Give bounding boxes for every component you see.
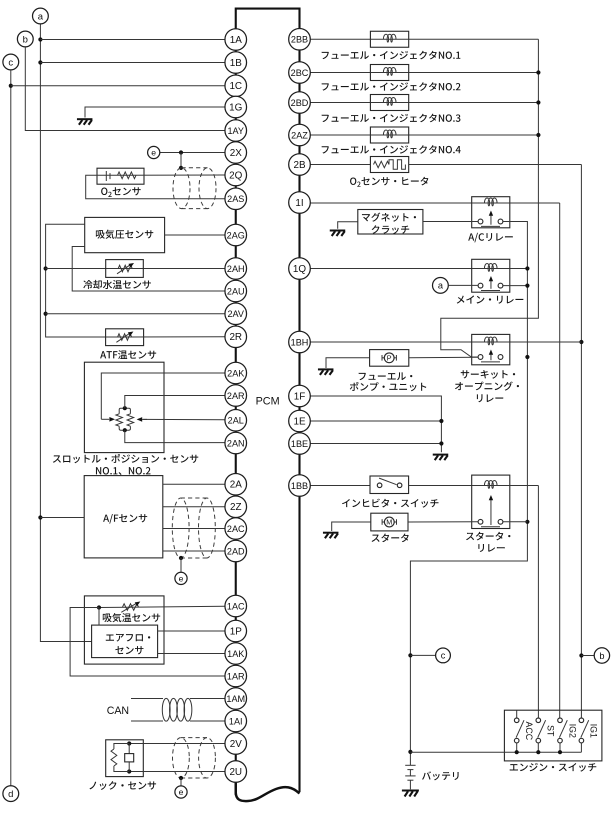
pin 2BD xyxy=(289,92,311,114)
svg-text:2U: 2U xyxy=(229,767,242,778)
label injector NO.2 xyxy=(322,83,329,90)
label throttle position sensor xyxy=(53,455,61,462)
svg-text:1C: 1C xyxy=(229,81,242,92)
ground (pump) xyxy=(318,369,334,375)
label starter xyxy=(372,535,380,542)
pin 1AY xyxy=(225,120,247,142)
pin 2AC xyxy=(225,518,247,540)
ground (battery) xyxy=(402,791,419,797)
connector e (A/F) xyxy=(175,572,187,584)
pin 2AZ xyxy=(289,124,311,146)
pin 1Q xyxy=(289,258,311,280)
pin 2AH xyxy=(225,258,247,280)
pin 1AK xyxy=(225,643,247,665)
label airflow sensor xyxy=(106,634,114,640)
wire 1BB xyxy=(310,485,370,487)
intake pressure sensor box xyxy=(85,217,165,252)
wire 1C xyxy=(11,85,225,87)
injector NO.2 box xyxy=(370,65,408,81)
label circuit opening relay xyxy=(461,370,469,378)
wire starter switch to rail xyxy=(503,521,528,523)
wire shield to e xyxy=(180,558,182,572)
svg-text:1BB: 1BB xyxy=(291,481,308,491)
knock piezo element xyxy=(128,744,130,754)
svg-text:ACC: ACC xyxy=(524,722,534,741)
wire 1B xyxy=(40,62,225,64)
svg-text:1F: 1F xyxy=(294,391,306,402)
wire a to A/F xyxy=(40,517,84,519)
node branch/2AV xyxy=(44,312,48,316)
label battery xyxy=(422,771,431,779)
blade ACC xyxy=(516,720,524,737)
pin 2V xyxy=(225,733,247,755)
svg-text:2Z: 2Z xyxy=(230,502,242,513)
wire: net a vertical xyxy=(40,24,91,642)
svg-text:2AC: 2AC xyxy=(227,524,245,534)
svg-text:1AM: 1AM xyxy=(226,694,245,704)
label main relay xyxy=(457,296,465,304)
label magnet clutch xyxy=(362,214,370,221)
wire clutch to ground xyxy=(338,222,358,229)
wire 1BH through CO coil xyxy=(310,341,581,343)
pin 1E xyxy=(289,410,311,432)
svg-text:2V: 2V xyxy=(230,739,242,750)
A/F sensor box xyxy=(84,476,163,558)
node: a to 1B xyxy=(38,60,42,64)
node: a to A/F sensor xyxy=(38,515,42,519)
label A/F sensor xyxy=(103,515,109,522)
svg-text:2AG: 2AG xyxy=(227,230,245,240)
wire a to main switch xyxy=(448,284,478,286)
resistor top bracket xyxy=(119,408,130,414)
wire 1P xyxy=(158,630,225,632)
node: e wire to shield xyxy=(179,150,183,154)
pin 2A xyxy=(225,473,247,495)
wire 1I xyxy=(310,202,471,204)
svg-text:1AC: 1AC xyxy=(227,601,245,611)
wire A/C coil to IG2 line xyxy=(510,202,560,204)
wire 1AC xyxy=(99,606,225,607)
svg-text:1I: 1I xyxy=(295,198,303,209)
connector d (bottom) xyxy=(3,786,19,802)
knock resistor branch xyxy=(114,744,129,750)
node rail/engine switch xyxy=(408,750,412,754)
pin 2AS xyxy=(225,188,247,210)
wire 2AH xyxy=(46,268,225,270)
ground (starter) xyxy=(323,533,339,539)
pin 1F xyxy=(289,385,311,407)
starter relay xyxy=(472,475,510,528)
pin 1AM xyxy=(225,688,247,710)
pin 2U xyxy=(225,761,247,783)
connector b (right) xyxy=(594,648,609,663)
label coolant temp sensor xyxy=(83,280,92,289)
label knock sensor xyxy=(89,782,96,790)
injector NO.4 box xyxy=(370,127,408,143)
svg-text:2AS: 2AS xyxy=(227,194,244,204)
svg-text:2R: 2R xyxy=(229,332,242,343)
bus bottom break wave xyxy=(236,782,300,801)
svg-text:d: d xyxy=(8,789,13,800)
ground (clutch) xyxy=(330,231,346,237)
wire 2Z xyxy=(163,506,225,508)
engine switch pole ST xyxy=(536,718,541,723)
svg-text:2B: 2B xyxy=(293,160,305,171)
svg-text:2AU: 2AU xyxy=(227,286,245,296)
wire airflow stub xyxy=(98,608,100,626)
pin 2AK xyxy=(225,362,247,384)
wire pump to ground xyxy=(326,358,370,368)
svg-text:2AD: 2AD xyxy=(227,546,245,556)
intake air temp sensor box xyxy=(84,596,164,664)
wire starter coil to ST line xyxy=(510,485,539,487)
knock sensor box xyxy=(106,740,144,777)
connector c (top) xyxy=(3,54,19,70)
ground (1G) xyxy=(77,119,93,125)
circuit opening relay xyxy=(472,334,510,364)
pin 2AG xyxy=(225,224,247,246)
pin 1BH xyxy=(289,331,311,353)
pin 1I xyxy=(289,192,311,214)
svg-text:2AK: 2AK xyxy=(227,368,244,378)
pin 1BB xyxy=(289,475,311,497)
pin 2Z xyxy=(225,496,247,518)
injector NO.1 box xyxy=(370,31,408,47)
shield (A/F) xyxy=(172,498,215,558)
pin 2R xyxy=(225,326,247,348)
connector c (right) xyxy=(436,648,451,663)
connector b (top) xyxy=(17,31,33,47)
node 1AC/1AR/airflow xyxy=(97,605,101,609)
pin 2BC xyxy=(289,62,311,84)
O2 sensor battery symbol xyxy=(105,171,107,181)
wire main coil to rail xyxy=(510,268,528,270)
throttle resistors xyxy=(116,414,123,426)
injector collector line xyxy=(441,39,539,357)
svg-text:2AZ: 2AZ xyxy=(291,130,308,140)
IG2 feed line xyxy=(559,203,561,718)
injector NO.3 wire xyxy=(310,102,370,104)
label injector NO.1 xyxy=(322,52,329,59)
O2 sensor resistor xyxy=(118,172,137,179)
pin 2AL xyxy=(225,409,247,431)
pin 1P xyxy=(225,620,247,642)
main relay xyxy=(472,259,510,292)
battery rail from A/C switch xyxy=(410,222,527,766)
svg-text:1Q: 1Q xyxy=(293,264,306,275)
label injector NO.3 xyxy=(322,115,329,122)
wire 1AR loop xyxy=(70,608,225,677)
engine switch pole IG2 xyxy=(558,718,563,723)
svg-text:e: e xyxy=(151,148,156,158)
pin 1AI xyxy=(225,710,247,732)
svg-text:IG1: IG1 xyxy=(589,724,599,738)
wire 2X to e xyxy=(160,152,225,154)
wire heater to IG1 line xyxy=(409,164,582,166)
engine switch pole IG1 xyxy=(579,718,584,723)
svg-text:2BD: 2BD xyxy=(291,98,309,108)
battery symbol xyxy=(405,764,415,766)
node rail/c xyxy=(408,653,412,657)
wire: net b to 1AY xyxy=(25,47,225,131)
IG1 feed line xyxy=(580,165,582,718)
pin 1A xyxy=(225,29,247,51)
engine switch common bus xyxy=(410,751,581,753)
svg-text:1AK: 1AK xyxy=(227,649,244,659)
ATF thermistor xyxy=(118,334,132,340)
A/C relay xyxy=(472,197,510,228)
pin 1BE xyxy=(289,433,311,455)
label starter relay xyxy=(466,533,474,540)
engine switch box xyxy=(504,710,602,761)
wire 2Q xyxy=(97,174,225,176)
ATF temp sensor box xyxy=(106,329,144,346)
wire 2U xyxy=(129,771,225,773)
connector e (O2 shield) xyxy=(148,146,160,158)
wire to connector b xyxy=(581,655,594,657)
label engine switch xyxy=(510,764,518,770)
injector NO.1 wire xyxy=(310,38,370,40)
wire 2AD xyxy=(163,550,225,552)
wire 2AC xyxy=(163,528,225,530)
coolant temp thermistor xyxy=(118,265,132,271)
fuel pump box xyxy=(370,350,409,367)
O2 heater box xyxy=(370,157,408,173)
wire O2 loop to 2AS xyxy=(86,175,225,198)
pin 1C xyxy=(225,75,247,97)
label A/C relay xyxy=(468,233,474,240)
svg-text:1A: 1A xyxy=(230,35,242,46)
svg-text:a: a xyxy=(38,11,44,22)
svg-text:2AR: 2AR xyxy=(227,391,245,401)
svg-text:e: e xyxy=(179,787,184,797)
svg-text:M: M xyxy=(386,518,392,527)
wire 2AG xyxy=(165,234,225,236)
blade IG2 xyxy=(559,720,567,737)
svg-text:1AI: 1AI xyxy=(229,716,243,726)
wire shield drain xyxy=(180,153,182,168)
pin 1G xyxy=(225,96,247,118)
ground (1F/1E/1BE) xyxy=(433,455,449,461)
pin 2AR xyxy=(225,385,247,407)
wire to connector c xyxy=(410,654,435,656)
svg-text:a: a xyxy=(438,281,444,291)
svg-text:2AV: 2AV xyxy=(227,309,244,319)
pin 1AC xyxy=(225,595,247,617)
svg-text:2BB: 2BB xyxy=(291,35,308,45)
wire starter to ground xyxy=(332,522,371,531)
knock internal nodes xyxy=(127,741,131,745)
svg-text:2A: 2A xyxy=(230,480,242,491)
wire: press sensor to 2AU xyxy=(72,247,225,292)
wire 1A xyxy=(40,39,225,41)
node IG1/b xyxy=(579,653,583,657)
pin 2AU xyxy=(225,280,247,302)
svg-text:1G: 1G xyxy=(229,102,242,113)
blade ST xyxy=(538,720,546,737)
connector e (knock) xyxy=(175,786,187,798)
engine switch pole ACC xyxy=(516,710,518,718)
injector NO.4 wire xyxy=(310,134,370,136)
fuel pump symbol xyxy=(381,355,383,361)
svg-text:1AR: 1AR xyxy=(227,671,245,681)
pin 2B xyxy=(289,154,311,176)
svg-text:2AN: 2AN xyxy=(227,438,245,448)
svg-text:2BC: 2BC xyxy=(291,68,309,78)
node: a to 1A xyxy=(38,37,42,41)
svg-text:c: c xyxy=(441,651,446,661)
wire pump to CO switch xyxy=(409,356,478,359)
wire 1BE xyxy=(310,443,441,445)
intake air thermistor xyxy=(123,604,139,610)
wire clutch to A/C switch xyxy=(423,221,478,223)
coolant temp sensor box xyxy=(106,260,144,278)
pin 2X xyxy=(225,142,247,164)
connector a (main relay) xyxy=(433,278,449,294)
magnet clutch box xyxy=(358,210,423,235)
wire 2A xyxy=(163,483,225,485)
label O2 sensor heater xyxy=(350,177,356,184)
node shield drain (knock) xyxy=(179,776,183,780)
wire: press sensor left branch xyxy=(46,224,106,337)
svg-text:1BE: 1BE xyxy=(291,439,308,449)
pin 1AR xyxy=(225,665,247,687)
svg-text:e: e xyxy=(179,573,184,583)
svg-text:2AL: 2AL xyxy=(228,416,244,426)
wire inhibitor to starter relay xyxy=(409,485,472,487)
label intake pressure sensor xyxy=(96,230,105,239)
svg-text:1E: 1E xyxy=(293,416,305,427)
wire 2AL wiper2 xyxy=(143,418,225,420)
pin 2AV xyxy=(225,303,247,325)
resistor bottom bracket xyxy=(119,426,130,430)
wire 2AR xyxy=(125,396,225,409)
injector NO.3 box xyxy=(370,95,408,111)
node rail/starter switch xyxy=(525,520,529,524)
node rail/CO switch xyxy=(525,355,529,359)
svg-text:1P: 1P xyxy=(230,626,242,637)
node shield drain xyxy=(179,556,183,560)
wire 1F xyxy=(310,396,441,452)
shield (O2) xyxy=(173,168,216,209)
label ATF temp sensor xyxy=(100,351,106,358)
svg-text:PCM: PCM xyxy=(256,395,280,407)
wire starter to relay switch xyxy=(408,521,478,523)
wire 2AV xyxy=(46,313,225,315)
throttle position sensor box xyxy=(84,362,164,452)
svg-text:c: c xyxy=(8,57,13,68)
wire 2AK wiper1 xyxy=(101,373,225,419)
node branch/2AH xyxy=(44,266,48,270)
wire: net c/d vertical xyxy=(10,70,12,786)
label O2 sensor xyxy=(101,188,107,195)
svg-text:1BH: 1BH xyxy=(291,337,309,347)
starter motor box xyxy=(371,513,408,531)
inhibitor switch box xyxy=(370,476,409,494)
svg-text:2X: 2X xyxy=(230,148,242,159)
label fuel pump unit xyxy=(359,373,366,380)
svg-text:P: P xyxy=(387,353,392,362)
label intake air temp sensor xyxy=(103,614,112,623)
svg-text:2AH: 2AH xyxy=(227,264,245,274)
injector NO.2 wire xyxy=(310,72,370,74)
svg-text:b: b xyxy=(23,34,28,45)
wire 2AN xyxy=(125,430,225,442)
wire 1E xyxy=(310,420,441,422)
wire main switch to rail xyxy=(503,285,528,287)
connector a (top) xyxy=(33,8,49,24)
pin 1B xyxy=(225,52,247,74)
CAN twisted pair xyxy=(131,698,163,700)
wire 2V xyxy=(129,743,225,745)
svg-text:CAN: CAN xyxy=(107,705,129,717)
svg-text:1AY: 1AY xyxy=(227,126,244,136)
svg-text:2Q: 2Q xyxy=(229,170,242,181)
label injector NO.4 xyxy=(322,146,329,153)
node: c to 1C xyxy=(9,84,13,88)
svg-text:b: b xyxy=(599,651,604,661)
wire 1Q xyxy=(310,268,471,270)
wire 1G to ground xyxy=(85,107,225,118)
O2 sensor box xyxy=(97,168,144,184)
inhibitor blade xyxy=(379,478,397,485)
wire 1AK xyxy=(158,653,225,655)
svg-text:IG2: IG2 xyxy=(567,724,577,738)
pin 2AD xyxy=(225,540,247,562)
label inhibitor switch xyxy=(342,499,350,507)
svg-text:ST: ST xyxy=(546,725,556,737)
wire 2R xyxy=(106,336,225,338)
PCM connector bus outline xyxy=(236,9,300,29)
airflow sensor box xyxy=(92,625,158,658)
O2 heater wire xyxy=(310,164,370,166)
pin 2Q xyxy=(225,164,247,186)
pin 2BB xyxy=(289,28,311,50)
pin 2AN xyxy=(225,432,247,454)
blade IG1 xyxy=(581,720,589,737)
node IG1/1BH xyxy=(579,340,583,344)
svg-text:1B: 1B xyxy=(230,58,242,69)
shield (knock) xyxy=(173,738,216,778)
ST feed line xyxy=(537,486,539,718)
